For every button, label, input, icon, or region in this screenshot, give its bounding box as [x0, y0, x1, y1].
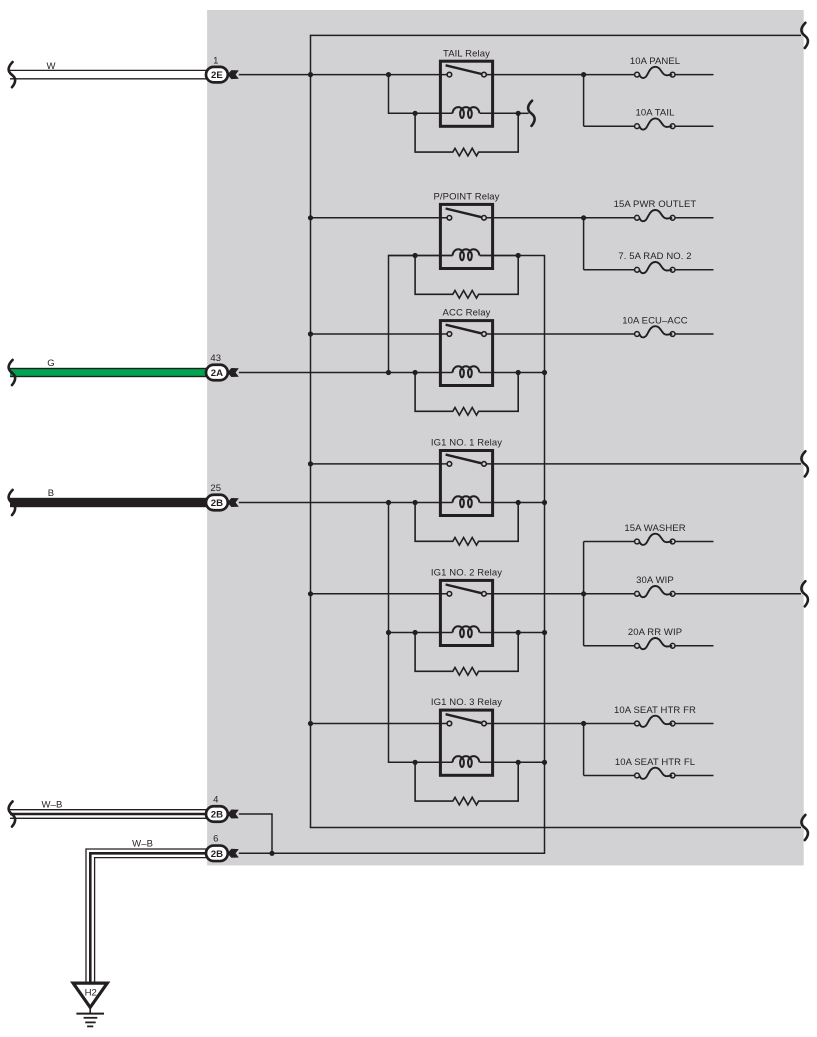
svg-text:2B: 2B: [211, 810, 223, 821]
relay IG1 NO. 2 Relay: switch contact circles: [447, 592, 452, 597]
wire: TAIL coil line right segment: [480, 112, 519, 114]
break squiggle at right end of top bus: [801, 23, 808, 48]
relay P/POINT Relay: switch contact circles: [447, 216, 452, 221]
wire: ACC coil line left segment: [239, 372, 453, 374]
svg-text:15A WASHER: 15A WASHER: [624, 523, 685, 534]
wire: ACC switch line left segment: [311, 333, 448, 335]
wire: P/POINT coil line left segment: [389, 255, 453, 257]
node: ACC coil-resistor left junction: [413, 370, 418, 375]
node: IG1 NO. 3 coil-resistor right junction: [516, 760, 521, 765]
ground H2 triangle: [73, 983, 107, 1007]
wire: TAIL coil to break: [518, 112, 528, 114]
relay IG1 NO. 3 Relay: case: [440, 710, 492, 775]
relay ACC Relay: resistor across coil: [415, 373, 518, 416]
fuse 30A WIP: [634, 593, 636, 595]
wire W-B from ground H2 to connector 2B pin 6: [86, 849, 206, 984]
svg-text:TAIL Relay: TAIL Relay: [443, 48, 490, 59]
svg-text:10A ECU–ACC: 10A ECU–ACC: [622, 315, 688, 326]
node: IG1 NO. 1 coil at right bus: [542, 500, 547, 505]
relay IG1 NO. 3 Relay: switch blade: [446, 714, 482, 723]
relay TAIL Relay: switch blade: [446, 65, 482, 74]
node: fuse branch junction on TAIL switch line: [581, 72, 586, 77]
break squiggle on TAIL relay coil output: [528, 101, 535, 126]
relay TAIL Relay: switch contact circles: [447, 72, 452, 77]
wire: IG1 NO. 2 coil right to right bus: [518, 632, 544, 634]
svg-text:G: G: [47, 358, 55, 369]
connector 2B pin 25: [206, 495, 228, 511]
svg-text:IG1 NO. 2 Relay: IG1 NO. 2 Relay: [431, 568, 502, 579]
wire: connector 2B pin 4 to pin 6 line: [239, 814, 272, 853]
wire: left vertical bus: [310, 35, 312, 827]
fuse bracket for 10A PANEL / 10A TAIL: [583, 75, 585, 127]
svg-text:2E: 2E: [211, 70, 223, 81]
node: IG1 NO. 2 switch line at left bus: [308, 591, 313, 596]
svg-text:10A TAIL: 10A TAIL: [635, 108, 674, 119]
wire: P/POINT coil line right segment: [480, 255, 519, 257]
relay IG1 NO. 2 Relay: resistor across coil: [415, 633, 518, 676]
relay IG1 NO. 3 Relay: resistor across coil: [415, 762, 518, 805]
relay P/POINT Relay: switch blade: [446, 209, 482, 218]
wire: IG1 NO. 1 switch line left segment: [311, 463, 448, 465]
wire: IG1 coil chain bracket down to IG1 NO. 3 coil: [389, 503, 453, 763]
wire: IG1 NO. 2 coil line right segment: [480, 632, 519, 634]
svg-text:15A PWR OUTLET: 15A PWR OUTLET: [614, 199, 697, 210]
node: TAIL coil-resistor right junction: [516, 111, 521, 116]
wire: ACC switch output to fuse: [486, 333, 634, 335]
fuse 10A SEAT HTR FR: [634, 723, 636, 725]
wire: TAIL coil line left segment: [389, 112, 453, 114]
svg-text:IG1 NO. 3 Relay: IG1 NO. 3 Relay: [431, 697, 502, 708]
svg-text:H2: H2: [85, 988, 97, 999]
svg-text:43: 43: [210, 353, 221, 364]
break squiggle at left end of wire G: [9, 360, 16, 385]
ground hatch lines: [76, 1013, 104, 1015]
node: IG1 NO. 1 coil line / bracket junction: [386, 500, 391, 505]
break squiggle at right end of 30A WIP line: [801, 581, 808, 606]
break squiggle at right end of bottom bus: [801, 815, 808, 840]
relay TAIL Relay: coil winding: [453, 107, 480, 118]
wire: IG1 NO. 1 coil line left segment: [239, 502, 453, 504]
wire: IG1 NO. 3 switch line left segment: [311, 723, 448, 725]
relay IG1 NO. 3 Relay: coil winding: [453, 756, 480, 767]
node: ACC coil line / bracket junction: [386, 370, 391, 375]
node: TAIL switch line / bracket junction: [386, 72, 391, 77]
node: IG1 NO. 3 coil-resistor left junction: [413, 760, 418, 765]
relay IG1 NO. 2 Relay: coil winding: [453, 626, 480, 637]
arrow into connector 2B pin 6: [227, 849, 239, 858]
relay TAIL Relay: case: [440, 61, 492, 126]
wire: IG1 NO. 1 coil line right segment: [480, 502, 519, 504]
wire: IG1 NO. 2 coil line left segment: [389, 632, 453, 634]
node: IG1 NO. 1 coil-resistor left junction: [413, 500, 418, 505]
relay IG1 NO. 1 Relay: case: [440, 451, 492, 516]
arrow into connector 2B pin 25: [227, 498, 239, 507]
relay IG1 NO. 1 Relay: resistor across coil: [415, 503, 518, 546]
connector 2A: [206, 365, 228, 381]
svg-text:2B: 2B: [211, 849, 223, 860]
svg-text:ACC Relay: ACC Relay: [443, 308, 491, 319]
node: IG1 NO. 1 switch line at left bus: [308, 461, 313, 466]
node: P/POINT coil-resistor left junction: [413, 253, 418, 258]
svg-text:30A WIP: 30A WIP: [636, 575, 674, 586]
wire: IG1 NO. 1 switch output to right edge: [486, 463, 801, 465]
node: P/POINT coil-resistor right junction: [516, 253, 521, 258]
fuse 10A ECU-ACC: [634, 333, 636, 335]
connector 2B pin 4: [206, 806, 228, 822]
connector 2B pin 6: [206, 846, 228, 862]
relay ACC Relay: switch blade: [446, 325, 482, 334]
wire B (black) into connector 2B pin 25: [10, 498, 206, 507]
fuse 7. 5A RAD NO. 2: [584, 269, 635, 271]
wire W-B into connector 2B pin 4: [10, 809, 206, 811]
svg-text:1: 1: [213, 55, 218, 66]
svg-text:W–B: W–B: [42, 800, 63, 811]
svg-text:B: B: [48, 488, 54, 499]
wire: TAIL relay switch-to-coil bracket: [389, 75, 391, 114]
relay ACC Relay: coil winding: [453, 366, 480, 377]
node: ACC coil-resistor right junction: [516, 370, 521, 375]
node: ACC switch line at left bus: [308, 331, 313, 336]
break squiggle at left end of wire B: [9, 490, 16, 515]
svg-text:IG1 NO. 1 Relay: IG1 NO. 1 Relay: [431, 438, 502, 449]
node: IG1 NO. 2 coil-resistor left junction: [413, 630, 418, 635]
arrow into connector 2E: [227, 70, 239, 79]
relay ACC Relay: switch contact circles: [447, 332, 452, 337]
node: IG1 NO. 1 coil-resistor right junction: [516, 500, 521, 505]
wire: IG1 NO. 1 coil right to right bus: [518, 502, 544, 504]
node: IG1 NO. 3 switch line at left bus: [308, 721, 313, 726]
wire: TAIL switch line left segment: [239, 74, 447, 76]
node: fuse branch junction on P/POINT switch line: [581, 215, 586, 220]
svg-text:25: 25: [210, 483, 221, 494]
relay TAIL Relay: resistor across coil: [415, 113, 518, 156]
wire: P/POINT coil to ACC coil bracket: [389, 256, 453, 373]
fuse 10A TAIL: [584, 125, 635, 127]
svg-text:W–B: W–B: [132, 838, 153, 849]
relay IG1 NO. 2 Relay: switch blade: [446, 585, 482, 594]
wire: ACC coil line right segment: [480, 372, 519, 374]
wire: IG1 NO. 3 coil line right segment: [480, 761, 519, 763]
arrow into connector 2A: [227, 368, 239, 377]
node: pin 4 / pin 6 line junction: [269, 851, 274, 856]
svg-text:10A SEAT HTR FR: 10A SEAT HTR FR: [614, 705, 696, 716]
wire: IG1 NO. 2 switch line left segment: [311, 593, 448, 595]
fuse bracket for 15A WASHER / 30A WIP / 20A RR WIP: [583, 542, 585, 646]
node: P/POINT switch line at left bus: [308, 215, 313, 220]
svg-text:7. 5A RAD NO. 2: 7. 5A RAD NO. 2: [618, 251, 691, 262]
fuse 10A PANEL: [634, 74, 636, 76]
relay IG1 NO. 1 Relay: switch contact circles: [447, 462, 452, 467]
node: TAIL coil-resistor left junction: [413, 111, 418, 116]
node: ACC coil line at right bus: [542, 370, 547, 375]
svg-text:2B: 2B: [211, 498, 223, 509]
wire W (white) into connector 2E: [10, 69, 206, 71]
node: IG1 NO. 2 coil-resistor right junction: [516, 630, 521, 635]
wire: TAIL switch output to fuses: [486, 74, 634, 76]
svg-text:2A: 2A: [211, 368, 223, 379]
fuse bracket for 15A PWR OUTLET / 7. 5A RAD NO. 2: [583, 218, 585, 270]
ground stub: [89, 1007, 91, 1013]
relay P/POINT Relay: resistor across coil: [415, 256, 518, 299]
wire: P/POINT switch output to fuses: [486, 217, 634, 219]
wire: ACC coil line right to right bus: [518, 372, 544, 374]
relay IG1 NO. 2 Relay: case: [440, 580, 492, 645]
relay P/POINT Relay: case: [440, 204, 492, 268]
wire G (green) into connector 2A: [10, 368, 206, 377]
relay IG1 NO. 1 Relay: switch blade: [446, 455, 482, 464]
break squiggle at left end of wire W-B pin 4: [9, 801, 16, 826]
node: TAIL switch line at left bus: [308, 72, 313, 77]
wire: IG1 NO. 3 coil line left segment: [389, 761, 453, 763]
wire: right vertical bus from P/POINT relay coil down to connector 2B pin 6 line: [239, 256, 545, 854]
node: IG1 NO. 2 coil at right bus: [542, 630, 547, 635]
junction/relay block background panel: [207, 10, 804, 865]
node: fuse branch junction on IG1 NO. 3 switch line: [581, 721, 586, 726]
relay IG1 NO. 3 Relay: switch contact circles: [447, 721, 452, 726]
svg-text:W: W: [46, 61, 55, 72]
svg-text:6: 6: [213, 834, 218, 845]
fuse 10A SEAT HTR FL: [584, 775, 635, 777]
wire: IG1 NO. 3 switch output to fuses: [486, 723, 634, 725]
svg-text:4: 4: [213, 795, 218, 806]
break squiggle at right end of IG1 NO. 1 switch line: [801, 451, 808, 476]
wire: P/POINT switch line left segment: [311, 217, 448, 219]
node: IG1 NO. 2 coil line / bracket junction: [386, 630, 391, 635]
arrow into connector 2B pin 4: [227, 810, 239, 819]
connector 2E: [206, 67, 228, 83]
wire: IG1 NO. 2 switch output to fuses: [486, 593, 634, 595]
wire: bottom horizontal bus: [310, 827, 801, 829]
wire: IG1 NO. 3 coil right to right bus: [518, 761, 544, 763]
fuse bracket for 10A SEAT HTR FR / FL: [583, 724, 585, 776]
fuse 20A RR WIP: [584, 645, 635, 647]
svg-text:20A RR WIP: 20A RR WIP: [628, 627, 682, 638]
svg-text:10A PANEL: 10A PANEL: [630, 56, 680, 67]
fuse 15A PWR OUTLET: [634, 217, 636, 219]
wire: top horizontal bus: [310, 34, 801, 36]
relay IG1 NO. 1 Relay: coil winding: [453, 496, 480, 507]
relay P/POINT Relay: coil winding: [453, 249, 480, 260]
break squiggle at left end of wire W: [9, 62, 16, 87]
node: IG1 NO. 3 coil at right bus: [542, 760, 547, 765]
relay ACC Relay: case: [440, 321, 492, 386]
fuse 15A WASHER: [584, 541, 635, 543]
node: fuse branch junction on IG1 NO. 2 switch line: [581, 591, 586, 596]
svg-text:P/POINT Relay: P/POINT Relay: [433, 192, 499, 203]
svg-text:10A SEAT HTR FL: 10A SEAT HTR FL: [615, 757, 695, 768]
